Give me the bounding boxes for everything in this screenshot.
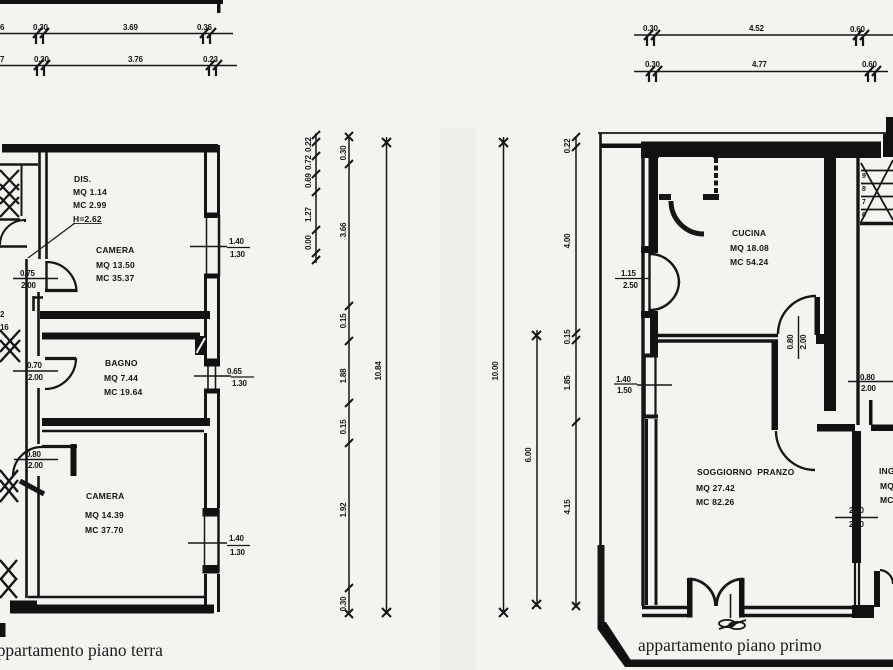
corridor door leaf [869,400,873,425]
svg-text:16: 16 [0,323,9,332]
svg-text:MQ 18.08: MQ 18.08 [730,243,769,253]
dim line D end ticks [499,138,508,617]
svg-text:MC 28: MC 28 [880,495,893,505]
kitchen right black wall [824,156,836,411]
right dim row1 ticks [644,30,869,46]
left plan right wall inner line [204,152,207,605]
right plan top wall [641,142,881,159]
svg-text:4.77: 4.77 [752,60,768,69]
svg-text:MQ 27.42: MQ 27.42 [696,483,735,493]
left edge wall stub bottom [0,623,6,637]
kitchen door stub [816,334,824,344]
svg-text:0.65: 0.65 [227,367,243,376]
svg-text:2.00: 2.00 [861,384,877,393]
left plan right wall outer line [217,145,220,612]
kitchen inner ceiling line [658,157,824,159]
window W3 camera2 [202,508,220,574]
dim line E [536,330,538,607]
svg-text:10.00: 10.00 [491,361,500,381]
svg-text:1.40: 1.40 [229,534,245,543]
flue black square bagno [195,336,207,355]
corridor wall left part [817,424,855,432]
hatch3 left edge window [0,330,20,362]
svg-text:1.27: 1.27 [304,206,313,222]
left plan top wall [2,144,218,153]
leader line H=2.62 [28,223,75,258]
corridor wall left line [25,259,28,598]
door K1 1.15 cap top [641,246,658,253]
hatch4 left edge window [0,470,18,502]
dim row1 ticks [33,28,216,44]
svg-text:1.30: 1.30 [230,250,246,259]
window W2 label [194,367,254,388]
dim cross 2.00 2.60 [835,517,878,519]
svg-text:4.00: 4.00 [563,233,572,249]
thin top line right sheet [598,132,893,134]
svg-text:0.22: 0.22 [563,138,572,154]
tick on top edge [217,0,221,13]
window W2 bagno [204,359,220,394]
left wall between door and window [650,318,658,354]
divider wall lower thin [855,563,859,606]
window W1 label [190,237,250,259]
dim line E end ticks [532,331,541,609]
dim line C [386,137,388,614]
svg-text:0.30: 0.30 [34,55,50,64]
french door opening white [687,604,743,618]
dim line B ticks [345,132,353,618]
svg-text:0.15: 0.15 [339,419,348,435]
door D2 dim line [13,370,58,372]
dim line F ticks [572,133,580,610]
stairs [860,160,893,224]
svg-text:MC 2.99: MC 2.99 [73,200,107,210]
door K1 double arcs [650,253,680,311]
svg-text:MC 54.24: MC 54.24 [730,257,769,267]
ingresso door wall [874,571,880,607]
junction black bottom right [852,605,874,618]
bottom wall inner line [28,596,205,599]
svg-text:H=2.62: H=2.62 [73,214,102,224]
kitchen door 0.80 arc [778,296,816,334]
wall bagno bottom [42,418,210,426]
svg-text:0.30: 0.30 [643,24,659,33]
svg-text:0.75: 0.75 [20,269,36,278]
arc1 corridor door [0,220,25,245]
corridor wall right part [871,425,893,432]
dim line A [315,133,317,263]
svg-text:MC 19.64: MC 19.64 [104,387,143,397]
arc1 bottom wall [0,245,27,247]
svg-text:4.15: 4.15 [563,499,572,515]
step marks below french door [719,620,746,629]
svg-text:0.30: 0.30 [339,596,348,612]
left wall inner band kitchen [649,148,659,253]
svg-text:0.60: 0.60 [862,60,878,69]
dim line B [348,136,350,614]
svg-text:MC 37.70: MC 37.70 [85,525,124,535]
svg-text:6.00: 6.00 [524,447,533,463]
door D1 camera1 0.75 [45,261,77,292]
svg-text:SOGGIORNO PRANZO: SOGGIORNO PRANZO [697,467,795,477]
svg-text:0.80: 0.80 [26,450,42,459]
svg-text:1.85: 1.85 [563,375,572,391]
soggiorno bottom wall double line [642,608,862,616]
dim line D [503,137,505,614]
kitchen door rotated dim line [798,316,800,359]
svg-text:INGRESSO: INGRESSO [879,466,893,476]
right dim row2 ticks [646,66,881,82]
closet top wall left edge [0,163,38,166]
left wall outer line [641,146,644,606]
svg-text:0.15: 0.15 [563,329,572,345]
svg-text:1.30: 1.30 [232,379,248,388]
window S1 1.40/1.50 [643,356,658,417]
interior wall A (dis/camera) [40,152,47,259]
door D3 dim line [14,459,58,461]
svg-text:8: 8 [862,186,866,193]
window W1 camera1 [204,213,221,279]
door K1 label [615,269,650,290]
door D2 bagno 0.70 [45,358,76,389]
left plan bottom wall [10,601,214,614]
svg-text:10.84: 10.84 [374,361,383,381]
svg-text:2.00: 2.00 [28,373,44,382]
soggiorno right wall upper [772,342,779,430]
wall stub below door3 [20,481,44,494]
svg-text:0.30: 0.30 [33,23,49,32]
svg-text:CUCINA: CUCINA [732,228,766,238]
svg-text:0.15: 0.15 [339,313,348,329]
svg-text:0.72: 0.72 [304,154,313,170]
svg-text:0.80: 0.80 [786,334,795,350]
svg-text:0.69: 0.69 [304,172,313,188]
svg-text:CAMERA: CAMERA [96,245,135,255]
hatch1 bottom wall [0,218,20,221]
kitchen bottom wall [658,336,778,342]
dim row1 line [0,33,233,35]
divider wall ingresso black [852,431,861,563]
top right frame corner blob [886,117,893,136]
svg-text:appartamento piano terra: appartamento piano terra [0,640,163,660]
door D1 dim line [13,278,58,280]
svg-text:MQ 9.9: MQ 9.9 [880,481,893,491]
wall L2 bagno top [42,333,200,340]
svg-text:1.15: 1.15 [621,269,637,278]
svg-text:0.70: 0.70 [27,361,43,370]
ingresso door arc [880,570,893,584]
svg-text:MC 82.26: MC 82.26 [696,497,735,507]
svg-text:3.66: 3.66 [339,222,348,238]
top right wall edge piece [883,134,893,157]
svg-text:6: 6 [862,212,866,219]
right dim row2 line [634,71,888,73]
corridor wall right line [37,292,40,598]
corridor door dim frac line [848,381,893,383]
right dim row1 line [634,34,893,36]
svg-text:1.88: 1.88 [339,368,348,384]
kitchen flue niche [659,157,719,234]
dim B rotated labels [339,145,348,612]
svg-text:0.22: 0.22 [304,136,313,152]
door K1 cap bottom [641,311,658,318]
svg-text:1.40: 1.40 [616,375,632,384]
svg-text:2.00: 2.00 [799,334,808,350]
corner stub near door D1 [33,296,43,311]
closet inner line [21,165,23,216]
stair step numbers [862,173,866,219]
dim row2 ticks [34,60,222,76]
soggiorno door arc [776,431,815,470]
svg-text:2.00: 2.00 [849,506,865,515]
svg-text:3.76: 3.76 [128,55,144,64]
door D3 camera2 0.80 [13,444,77,476]
top wall outer stub [601,144,641,149]
svg-text:1.30: 1.30 [230,548,246,557]
dim line A ticks [312,131,320,264]
svg-text:MC 35.37: MC 35.37 [96,273,135,283]
sheet frame diagonal and bottom [598,622,893,667]
hatch5 left edge window [0,560,17,598]
french door leaves [689,579,744,618]
svg-text:BAGNO: BAGNO [105,358,138,368]
svg-text:1.40: 1.40 [229,237,245,246]
svg-text:0.30: 0.30 [339,145,348,161]
left wall below window [647,419,657,605]
svg-text:MQ 13.50: MQ 13.50 [96,260,135,270]
svg-text:MQ 1.14: MQ 1.14 [73,187,107,197]
stair left wall [856,157,859,425]
wall bagno bottom second line [42,430,204,433]
hatch1 window left edge [0,170,19,217]
svg-text:2.60: 2.60 [849,520,865,529]
cropped thick line top edge [0,0,223,4]
sheet frame left border thick [598,545,605,626]
svg-text:9: 9 [862,173,866,180]
svg-text:0.23: 0.23 [203,55,219,64]
dim F rotated labels [563,138,572,515]
svg-text:MQ 14.39: MQ 14.39 [85,510,124,520]
svg-text:7: 7 [862,199,866,206]
dim row2 line [0,65,237,67]
scan noise strip between pages [440,128,476,670]
sheet frame left border [599,133,602,548]
dim line F [575,137,577,607]
svg-text:appartamento piano primo: appartamento piano primo [638,635,822,655]
svg-text:3.69: 3.69 [123,23,139,32]
window W3 label [188,534,250,557]
svg-text:DIS.: DIS. [74,174,91,184]
svg-text:MQ 7.44: MQ 7.44 [104,373,138,383]
svg-text:1.92: 1.92 [339,502,348,518]
kitchen door 0.80 leaf [815,297,821,335]
svg-text:0.36: 0.36 [197,23,213,32]
svg-text:1.50: 1.50 [617,386,633,395]
svg-text:0.80: 0.80 [860,373,876,382]
dim line C end ticks [382,138,391,617]
french door jambs [687,578,693,618]
svg-text:2.00: 2.00 [28,461,44,470]
kitchen door rotated label [786,334,808,350]
svg-text:2.00: 2.00 [21,281,37,290]
wall L1 camera1 bottom [40,311,210,319]
window S1 label [614,375,672,395]
svg-text:0.00: 0.00 [304,234,313,250]
svg-text:0.60: 0.60 [850,25,866,34]
svg-text:0.30: 0.30 [645,60,661,69]
dim A rotated labels [304,136,313,250]
svg-text:4.52: 4.52 [749,24,765,33]
svg-text:CAMERA: CAMERA [86,491,125,501]
svg-text:2.50: 2.50 [623,281,639,290]
